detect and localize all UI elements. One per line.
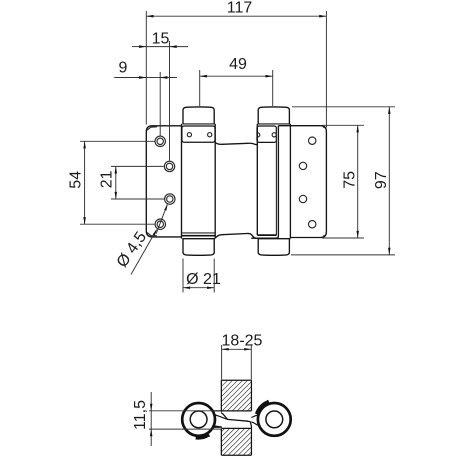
left leaf neck bottom (212, 426, 222, 427)
left barrel cap shoulder line (182, 123, 214, 125)
leaf interlock S-line through door (221, 413, 248, 421)
right barrel body sides (257, 124, 290, 239)
svg-text:Ø 21: Ø 21 (186, 271, 221, 288)
right leaf neck bottom (251, 422, 257, 425)
extension line right leaf edge (117) (325, 11, 327, 128)
dimension diameter 21 (183, 271, 221, 289)
left leaf screw hole 2 (countersunk) (164, 161, 174, 171)
extension lines 54 (80, 140, 155, 142)
svg-text:18-25: 18-25 (222, 333, 263, 350)
left barrel band rivet hole left (187, 133, 191, 137)
right leaf hole 2 (299, 162, 306, 169)
central connecting plate bottom edge (215, 233, 256, 238)
left leaf bottom corner chamfer mark (147, 233, 157, 236)
dimension 15 (132, 31, 188, 48)
left barrel bottom cap top line (182, 238, 214, 240)
right ring wrap tab (256, 402, 268, 414)
svg-text:75: 75 (342, 171, 359, 189)
interlock right step (250, 422, 251, 427)
right leaf hole 1 (309, 137, 316, 144)
right leaf bottom corner chamfer mark (323, 235, 325, 237)
right leaf fold inner line (275, 128, 277, 235)
svg-text:21: 21 (99, 170, 116, 188)
right leaf hole 4 (309, 221, 316, 228)
left leaf screw hole 4 (countersunk) (155, 219, 165, 229)
door upper hatched block (221, 380, 251, 413)
dimension 9 (114, 60, 177, 79)
right barrel band rivet hole left (258, 133, 260, 137)
extension line hole col 9 (159, 72, 161, 136)
right barrel bottom cap top line (258, 238, 291, 240)
dimension 97 (373, 107, 391, 255)
svg-text:97: 97 (373, 171, 390, 189)
extension line left leaf edge (145, 11, 147, 125)
left barrel body sides (182, 124, 216, 239)
central connecting plate top edge (215, 142, 257, 144)
dimension 49 (200, 56, 273, 78)
left leaf plate (146, 126, 181, 237)
right leaf neck top (251, 414, 259, 418)
right leaf fold bottom contour (251, 236, 278, 238)
extension line left barrel axis (49) (199, 70, 201, 106)
dimension 75 (342, 125, 359, 238)
left ring inner circle (190, 411, 207, 428)
dimension 54 (67, 141, 85, 224)
left ring wrap tab (196, 435, 209, 438)
extension line right barrel axis (49) (272, 70, 274, 106)
left ring outer circle (182, 403, 215, 436)
dimension 18-25 (222, 333, 263, 380)
svg-text:54: 54 (67, 171, 84, 189)
right leaf fold edge (277, 126, 279, 237)
interlock wedge (right leaf tip) (245, 420, 251, 422)
left leaf screw hole 1 (countersunk) (155, 136, 165, 146)
right barrel top crimp band (257, 126, 276, 142)
left leaf bar bottom edge (199, 426, 222, 428)
right leaf plate (278, 126, 326, 238)
right barrel band rivet hole right (272, 133, 276, 137)
svg-text:49: 49 (229, 56, 247, 73)
svg-text:117: 117 (227, 0, 253, 17)
right barrel bottom cap (258, 239, 289, 256)
extension lines 97 (292, 106, 395, 108)
leader line diameter 4,5 (114, 204, 168, 274)
right barrel top cap (258, 107, 289, 124)
svg-text:15: 15 (152, 31, 170, 48)
left barrel bottom cap (183, 239, 214, 256)
svg-text:11,5: 11,5 (132, 400, 149, 430)
left leaf bar top edge (200, 410, 222, 412)
right ring inner circle (266, 411, 283, 428)
left leaf bar fill (199, 412, 221, 427)
extension lines 21 (111, 165, 164, 167)
right ring outer circle (258, 403, 291, 436)
left leaf screw hole 3 (countersunk) (165, 194, 175, 204)
door lower hatched block (221, 427, 251, 456)
left barrel band rivet hole right (208, 133, 212, 137)
right leaf hole 3 (299, 195, 306, 202)
right leaf top corner chamfer mark (323, 126, 325, 128)
left barrel top cap (183, 107, 214, 124)
dimension 117 (146, 0, 326, 18)
extension line hole col 15 (169, 41, 171, 161)
dimension 21 (holes) (99, 166, 117, 199)
right barrel cap shoulder line (258, 123, 291, 125)
extension lines diameter 21 (182, 259, 184, 293)
svg-text:9: 9 (119, 60, 128, 77)
extension lines 75 (322, 124, 364, 126)
dimension 11,5 (132, 392, 222, 446)
left barrel top crimp band (182, 126, 215, 142)
left leaf top corner chamfer mark (147, 127, 157, 130)
left leaf neck top (213, 414, 228, 420)
left barrel bottom crimp lines (182, 232, 216, 234)
right barrel bottom crimp line (257, 234, 276, 236)
